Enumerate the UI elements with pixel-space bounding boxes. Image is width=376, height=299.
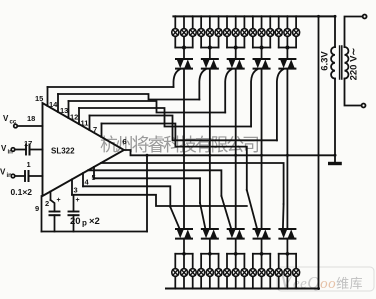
svg-text:220 V∼: 220 V∼: [349, 48, 360, 81]
svg-text:+: +: [76, 197, 80, 204]
svg-text:14: 14: [49, 100, 58, 109]
svg-text:in: in: [7, 173, 13, 179]
svg-text:p: p: [82, 219, 87, 228]
svg-text:13: 13: [60, 106, 68, 115]
svg-text:+: +: [57, 197, 61, 204]
svg-text:3: 3: [74, 186, 78, 195]
svg-text:15: 15: [35, 94, 43, 103]
svg-text:6: 6: [123, 137, 127, 146]
svg-text:18: 18: [27, 114, 35, 123]
svg-text:6.3V: 6.3V: [320, 51, 331, 71]
svg-text:V: V: [0, 168, 6, 177]
svg-text:17: 17: [24, 139, 32, 148]
svg-text:V: V: [3, 114, 9, 123]
svg-text:in: in: [8, 150, 14, 156]
svg-text:9: 9: [35, 204, 39, 213]
svg-text:7: 7: [93, 125, 97, 134]
svg-text:cc: cc: [10, 120, 17, 126]
svg-text:2: 2: [45, 199, 49, 208]
svg-text:11: 11: [81, 119, 89, 128]
svg-text:20: 20: [70, 216, 81, 227]
svg-text:SL322: SL322: [51, 147, 75, 156]
svg-text:1: 1: [27, 160, 31, 169]
svg-text:×2: ×2: [89, 216, 100, 227]
svg-text:0.1×2: 0.1×2: [11, 187, 33, 197]
svg-text:V: V: [1, 144, 7, 153]
svg-text:5: 5: [92, 173, 96, 182]
svg-text:12: 12: [70, 113, 78, 122]
